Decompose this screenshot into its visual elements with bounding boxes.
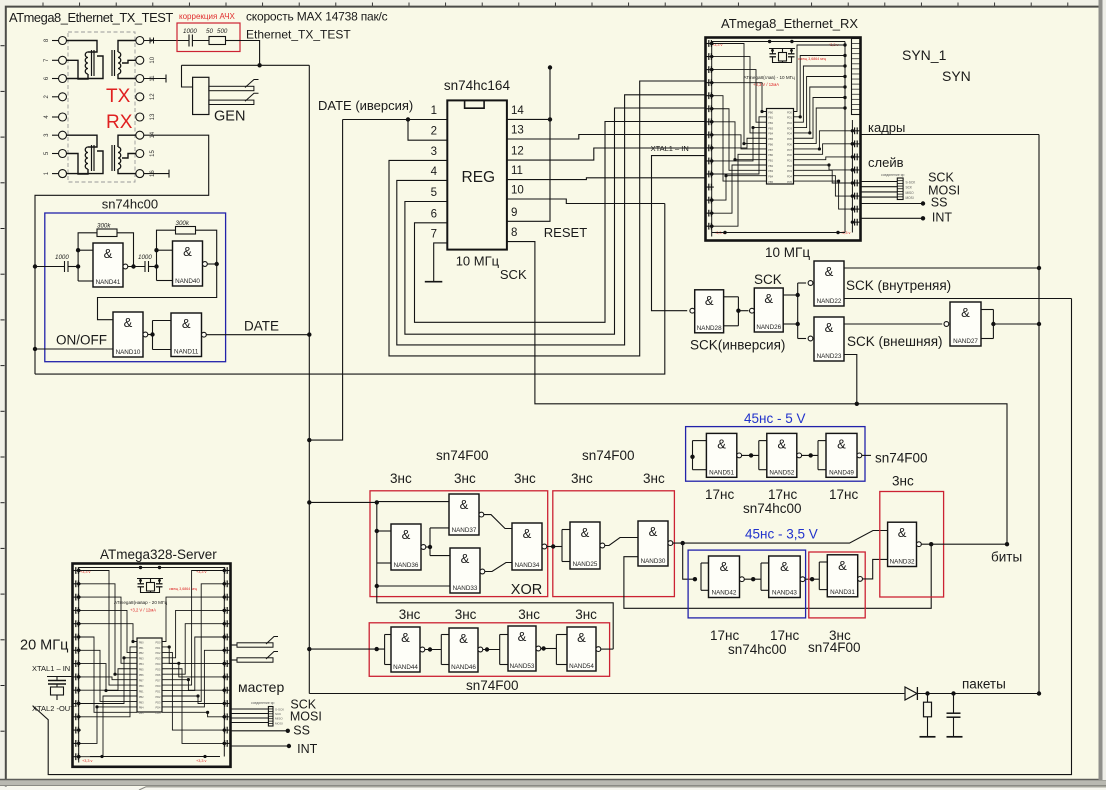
svg-text:15: 15 [150, 150, 156, 157]
svg-text:PB4: PB4 [139, 706, 144, 710]
wire NAND32 output to биты [921, 543, 1007, 545]
svg-text:NAND54: NAND54 [569, 663, 594, 670]
svg-text:NAND31: NAND31 [830, 589, 855, 596]
svg-text:пакеты: пакеты [962, 677, 1006, 692]
svg-text:NAND32: NAND32 [890, 559, 915, 566]
wire input bottom row [309, 648, 384, 650]
wire кадры [861, 134, 1040, 136]
svg-text:PD2: PD2 [155, 651, 161, 655]
svg-text:коррекция АЧХ: коррекция АЧХ [179, 12, 236, 21]
nand gate NAND10 [113, 312, 143, 357]
NAND46 input bracket [440, 635, 442, 665]
wire REG pin4 loop [397, 95, 706, 345]
wire NAND46 to NAND53 [483, 649, 500, 651]
svg-text:PB2: PB2 [768, 164, 773, 168]
svg-text:&: & [518, 629, 527, 644]
mcu RX left pin terminators [706, 43, 714, 45]
svg-text:MOSI: MOSI [290, 710, 322, 724]
mcu ATmega328 outer box [73, 564, 231, 767]
blue box sn74hc00 [45, 213, 226, 362]
transformer module dashed outline [68, 32, 135, 182]
svg-text:соединение яр: соединение яр [881, 173, 904, 177]
wire REG pin12 step [507, 148, 706, 160]
wire SS RX [861, 203, 924, 205]
svg-text:TX: TX [106, 86, 131, 107]
svg-text:&: & [577, 630, 586, 645]
GEN switch output 2 [209, 100, 254, 104]
svg-text:INT: INT [932, 211, 953, 225]
svg-text:NAND33: NAND33 [453, 585, 478, 592]
left ruler ticks [1, 45, 5, 47]
wire NAND27 to bus A [993, 323, 1039, 325]
bus B vertical big loop [33, 299, 1072, 775]
wire REG pin6 loop [415, 122, 707, 323]
nand gate NAND11 [171, 313, 202, 357]
svg-text:&: & [124, 315, 133, 330]
svg-text:&: & [459, 631, 468, 646]
wire INT RX [861, 217, 924, 219]
svg-text:NAND52: NAND52 [769, 469, 794, 476]
svg-text:кадры: кадры [868, 120, 905, 135]
svg-text:sn74F00: sn74F00 [808, 640, 861, 655]
svg-text:PD2: PD2 [787, 121, 793, 125]
nand gate NAND40 [173, 241, 203, 286]
nand gate NAND37 [449, 494, 479, 535]
svg-text:PD4: PD4 [787, 132, 793, 136]
svg-text:NAND41: NAND41 [96, 279, 121, 286]
svg-text:SCK (внутреняя): SCK (внутреняя) [846, 278, 951, 293]
svg-text:PD0: PD0 [155, 640, 161, 644]
wire REG pin8 SCK down [507, 242, 1007, 545]
svg-text:10 МГц: 10 МГц [456, 254, 500, 269]
svg-text:1: 1 [431, 105, 437, 117]
svg-text:PD1: PD1 [155, 689, 161, 693]
NAND25 input bracket [561, 530, 563, 562]
wire REG pin10 step [507, 199, 665, 204]
transformer primary connections [67, 135, 98, 147]
GEN switch output 1 [209, 86, 254, 90]
svg-text:5: 5 [431, 187, 437, 199]
svg-text:слейв: слейв [868, 155, 904, 170]
svg-text:sn74hc00: sn74hc00 [743, 501, 802, 516]
wire main left bus x309 [308, 335, 310, 694]
svg-text:10: 10 [150, 56, 156, 63]
svg-text:SYN_1: SYN_1 [902, 47, 947, 63]
svg-text:PB3: PB3 [139, 700, 144, 704]
svg-text:&: & [581, 525, 590, 540]
mcu RX fan wires right [794, 45, 846, 112]
node NAND41 input junction [76, 264, 80, 268]
wire transformer pin14 to hc00 bus [35, 135, 209, 374]
wire INT master [231, 745, 289, 747]
svg-text:ATmega8_Ethernet_RX: ATmega8_Ethernet_RX [721, 16, 858, 31]
svg-text:SCK: SCK [928, 171, 954, 185]
NAND33 output bubble [480, 569, 485, 574]
ground symbol REG [425, 281, 443, 283]
svg-text:3нс: 3нс [571, 471, 593, 486]
NAND49 input bracket [817, 441, 819, 470]
svg-text:NAND44: NAND44 [393, 664, 418, 671]
svg-text:&: & [717, 436, 726, 451]
svg-text:ATmega328-Server: ATmega328-Server [100, 547, 217, 562]
wire NAND52 to NAND49 [802, 454, 818, 456]
wire diode to node [917, 693, 1039, 695]
wire NAND23 out top to NAND27 [844, 323, 942, 325]
svg-text:PB1: PB1 [139, 689, 144, 693]
svg-text:NAND37: NAND37 [452, 527, 477, 534]
nand gate NAND32 [888, 522, 917, 566]
resistor to ground [927, 694, 929, 703]
transformer core [111, 50, 113, 76]
wire NAND54 output up [601, 648, 613, 650]
wire NAND22 out bottom to loop B [844, 298, 1072, 300]
nand gate NAND28 [695, 290, 724, 333]
wire NAND28 to NAND26 [738, 310, 748, 312]
NAND22 input bubble [808, 281, 813, 286]
wire NAND31 to NAND32 [863, 559, 888, 579]
svg-text:NAND30: NAND30 [641, 558, 666, 565]
wire NAND25 to NAND30 diagonal [605, 538, 638, 546]
svg-text:3нс: 3нс [390, 471, 412, 486]
NAND32 output bubble [917, 542, 922, 547]
mcu ATmega8 RX inner IC [767, 109, 794, 185]
svg-text:PB6: PB6 [768, 142, 773, 146]
svg-text:NAND10: NAND10 [116, 349, 141, 356]
svg-text:PD0: PD0 [787, 153, 793, 157]
svg-text:&: & [649, 524, 658, 539]
terminator right pin 3 [144, 78, 166, 80]
mcu Server fan wires left [79, 624, 137, 642]
wires to мастер connector [231, 708, 269, 710]
svg-text:6: 6 [431, 208, 437, 220]
svg-text:PD2: PD2 [155, 695, 161, 699]
wire DATE inversion to REG pin1 [343, 119, 448, 121]
wire REG pin9 vertical [507, 68, 550, 222]
svg-text:3нс: 3нс [575, 607, 597, 622]
NAND26 output bracket to NAND22 NAND23 [783, 294, 798, 296]
node capacitor [951, 691, 955, 695]
nand gate NAND44 [391, 627, 420, 672]
svg-text:3нс: 3нс [892, 474, 914, 489]
svg-text:MISO: MISO [906, 191, 915, 195]
NAND28 input bubble [690, 308, 695, 313]
nand gate NAND30 [638, 521, 668, 566]
svg-text:&: & [402, 527, 411, 542]
NAND52 input bracket [758, 441, 760, 470]
NAND40 output bubble [203, 262, 208, 267]
svg-text:NAND26: NAND26 [756, 324, 781, 331]
NAND44 output bubble [420, 647, 425, 652]
svg-text:3нс: 3нс [455, 607, 477, 622]
svg-text:300k: 300k [176, 220, 190, 227]
blue box 45нс 3.5V [688, 550, 806, 618]
NAND31 output bubble [858, 577, 863, 582]
wire NAND42 to NAND43 [744, 578, 761, 580]
wire NAND40 output to NAND10 [207, 263, 216, 265]
svg-text:3нс: 3нс [518, 607, 540, 622]
svg-text:XTAL1 – IN: XTAL1 – IN [32, 664, 70, 673]
svg-text:XOR: XOR [511, 582, 542, 598]
wire NAND51 to NAND52 [742, 454, 759, 456]
svg-text:NAND43: NAND43 [772, 590, 797, 597]
capacitor to ground [953, 694, 955, 714]
svg-text:&: & [825, 320, 834, 335]
nand gate NAND49 [826, 433, 857, 477]
wire long DATE return [35, 204, 665, 375]
svg-text:sn74hc164: sn74hc164 [444, 78, 511, 93]
svg-text:PD0: PD0 [155, 684, 161, 688]
mcu RX right rails [844, 42, 846, 233]
svg-text:PB1: PB1 [768, 158, 773, 162]
mcu Server left pin terminators [73, 570, 81, 572]
svg-text:GEN: GEN [214, 109, 245, 125]
mcu RX right header strip [852, 39, 861, 115]
NAND51 output bubble [737, 453, 742, 458]
NAND37 output bubble [479, 512, 484, 517]
svg-text:DATE: DATE [244, 319, 279, 334]
svg-text:NAND40: NAND40 [175, 278, 200, 285]
node pin1/pin2 branch [406, 117, 410, 121]
svg-text:1000: 1000 [138, 254, 152, 261]
transformer primary winding [85, 52, 88, 74]
NAND23 input bubble [808, 336, 813, 341]
nand gate NAND23 [814, 317, 844, 361]
wire GEN bus [182, 64, 310, 66]
nand gate NAND53 [508, 626, 536, 671]
svg-text:PD1: PD1 [787, 158, 793, 162]
svg-text:SCK (внешняя): SCK (внешняя) [847, 334, 943, 349]
svg-text:&: & [182, 316, 191, 331]
svg-text:&: & [705, 293, 714, 308]
NAND30 output bubble [668, 541, 673, 546]
svg-text:ON/OFF: ON/OFF [56, 333, 107, 348]
wire REG pin13 step [507, 135, 706, 140]
svg-text:PB2: PB2 [768, 121, 773, 125]
svg-text:NAND49: NAND49 [829, 469, 854, 476]
wire NAND44 to NAND46 [425, 649, 442, 651]
svg-text:NAND46: NAND46 [451, 664, 476, 671]
svg-text:PB5: PB5 [768, 137, 773, 141]
svg-text:PD5: PD5 [155, 668, 161, 672]
svg-text:NAND11: NAND11 [174, 349, 199, 356]
svg-text:1000: 1000 [183, 28, 197, 35]
wire NAND37 to NAND34 diagonal [484, 515, 512, 529]
mcu Server left rail [78, 568, 80, 763]
svg-text:DATE (иверсия): DATE (иверсия) [318, 98, 413, 113]
svg-text:PD7: PD7 [155, 678, 161, 682]
crystal XTAL server [47, 676, 73, 678]
sheet tab corner [139, 787, 1106, 790]
svg-text:PB3: PB3 [139, 657, 144, 661]
svg-text:&: & [764, 291, 773, 306]
wire NAND34 to NAND25 [547, 546, 562, 548]
svg-text:17нс: 17нс [829, 487, 858, 502]
svg-text:PB5: PB5 [139, 711, 144, 715]
wire NAND10 to NAND11 [148, 334, 153, 336]
wire пакеты bus [309, 693, 904, 695]
svg-text:PD2: PD2 [787, 164, 793, 168]
svg-text:соединение яр: соединение яр [251, 701, 274, 705]
svg-text:&: & [720, 559, 729, 574]
svg-text:PD1: PD1 [787, 116, 793, 120]
svg-text:RX: RX [106, 112, 133, 133]
wire XOR net to NAND54 loop [377, 586, 613, 649]
svg-text:SCK: SCK [754, 272, 782, 287]
svg-text:NAND28: NAND28 [697, 325, 722, 332]
svg-text:12: 12 [150, 93, 156, 100]
svg-text:PD7: PD7 [787, 148, 793, 152]
svg-text:PD5: PD5 [155, 711, 161, 715]
svg-text:500: 500 [217, 28, 228, 35]
NAND42 output bubble [740, 577, 745, 582]
wire NAND23 out bottom to SCK bus [844, 355, 857, 404]
transformer secondary connections [118, 135, 136, 147]
mcu RX right pin terminators [852, 130, 860, 132]
crystal circuit RX [769, 48, 795, 50]
mcu Server top rail [79, 567, 225, 569]
svg-text:10 МГц: 10 МГц [765, 245, 810, 260]
svg-text:RESET: RESET [544, 225, 587, 240]
nand gate NAND31 [827, 555, 857, 597]
wire NAND49 output stub [862, 454, 871, 456]
wire REG pin5 loop [405, 108, 706, 334]
mcu ATmega8 RX outer box [706, 38, 861, 241]
svg-text:17нс: 17нс [710, 628, 739, 643]
svg-text:SYN: SYN [942, 68, 971, 84]
terminator right pin 8 [144, 173, 169, 175]
svg-text:45нс - 5 V: 45нс - 5 V [744, 411, 805, 426]
svg-text:NAND53: NAND53 [510, 663, 535, 670]
nand gate NAND33 [450, 548, 480, 593]
wire XOR input [309, 501, 377, 503]
bus A vertical [918, 135, 1040, 694]
transformer right pins [136, 37, 144, 45]
svg-text:20 МГц: 20 МГц [20, 638, 68, 654]
svg-text:NAND27: NAND27 [953, 338, 978, 345]
NAND54 output bubble [596, 647, 601, 652]
svg-text:NAND51: NAND51 [709, 469, 734, 476]
svg-text:&: & [780, 559, 789, 574]
transformer secondary connections [118, 41, 136, 53]
svg-text:50: 50 [206, 28, 213, 35]
NAND43 output bubble [800, 577, 805, 582]
svg-text:PB0: PB0 [139, 640, 144, 644]
NAND44 input bracket [384, 635, 386, 665]
node resistor [925, 691, 929, 695]
svg-text:PD3: PD3 [787, 169, 793, 173]
NAND36 output bubble [421, 545, 426, 550]
svg-text:Ethernet_TX_TEST: Ethernet_TX_TEST [246, 28, 351, 42]
svg-text:биты: биты [991, 550, 1022, 565]
wire GEN node down bus x309 [308, 65, 310, 334]
NAND53 output bubble [536, 646, 541, 651]
NAND11 output bubble DATE [202, 332, 207, 337]
svg-text:PD1: PD1 [155, 646, 161, 650]
svg-text:мастер: мастер [238, 679, 284, 695]
NAND51 input bracket [692, 441, 694, 470]
mcu RX left rail [711, 42, 713, 237]
NAND40 input bracket [156, 250, 158, 280]
svg-text:14: 14 [511, 105, 524, 117]
svg-text:ATmega8(глав) - 10 МГц: ATmega8(глав) - 10 МГц [744, 75, 796, 80]
svg-text:&: & [523, 526, 532, 541]
svg-text:sn74F00: sn74F00 [436, 448, 489, 463]
svg-text:9: 9 [511, 207, 517, 219]
mcu RX fan wires left [712, 83, 767, 112]
svg-text:PD4: PD4 [155, 706, 161, 710]
nand gate NAND52 [767, 433, 797, 477]
svg-text:S-SCK: S-SCK [906, 181, 917, 185]
svg-text:PB6: PB6 [139, 673, 144, 677]
svg-text:SCK(инверсия): SCK(инверсия) [690, 338, 785, 353]
NAND31 input bracket [818, 562, 820, 590]
svg-text:PB0: PB0 [768, 110, 773, 114]
mcu Server fan wires right [162, 597, 224, 641]
svg-text:+3,3 v: +3,3 v [196, 759, 207, 763]
transformer primary winding [85, 147, 88, 169]
svg-text:PD4: PD4 [787, 175, 793, 179]
svg-text:&: & [825, 264, 834, 279]
wire GEN left drop [182, 65, 193, 87]
NAND46 output bubble [478, 647, 483, 652]
svg-text:PB4: PB4 [139, 662, 144, 666]
transformer secondary winding [118, 52, 121, 74]
svg-text:INT: INT [297, 742, 318, 756]
switch symbols server [237, 643, 273, 647]
svg-text:PD3: PD3 [787, 126, 793, 130]
svg-text:300k: 300k [97, 223, 111, 230]
wire transformer to correction box [144, 40, 189, 42]
wire correction box to GEN node [240, 41, 260, 66]
NAND11 input bracket [152, 321, 154, 350]
wire NAND33 to NAND34 diagonal [485, 563, 512, 572]
generator GEN box [193, 77, 209, 114]
NAND53 input bracket [499, 635, 501, 665]
NAND25 output bubble [600, 543, 605, 548]
svg-text:NAND36: NAND36 [394, 562, 419, 569]
svg-text:PB7: PB7 [139, 678, 144, 682]
NAND49 output bubble [857, 453, 862, 458]
NAND26 input bubble [750, 308, 755, 313]
mcu RX top rail [712, 41, 845, 43]
crystal circuit Server [137, 578, 163, 580]
red box 2 [553, 491, 675, 597]
svg-text:sn74F00: sn74F00 [875, 451, 928, 466]
svg-text:11: 11 [511, 165, 523, 177]
NAND27 right bracket [981, 309, 993, 311]
svg-text:PB0: PB0 [139, 684, 144, 688]
svg-text:3нс: 3нс [643, 471, 665, 486]
NAND54 input bracket [555, 635, 557, 665]
NAND34 output bubble [542, 544, 547, 549]
svg-text:+3,3 v: +3,3 v [82, 759, 93, 763]
svg-text:sn74hc00: sn74hc00 [102, 197, 158, 212]
svg-text:7: 7 [431, 228, 437, 240]
svg-text:PB2: PB2 [139, 695, 144, 699]
NAND43 input bracket [760, 563, 762, 590]
svg-text:PD3: PD3 [155, 657, 161, 661]
transformer core [111, 145, 113, 171]
nand gate NAND27 [950, 302, 981, 346]
right window edge [1099, 0, 1103, 780]
svg-text:PD5: PD5 [787, 180, 793, 184]
nand gate NAND26 [754, 288, 783, 332]
svg-text:PB3: PB3 [768, 169, 773, 173]
svg-text:1000: 1000 [55, 254, 69, 261]
svg-text:SCK: SCK [275, 712, 281, 716]
transformer primary connections [67, 41, 98, 53]
red box NAND31 [809, 552, 865, 618]
